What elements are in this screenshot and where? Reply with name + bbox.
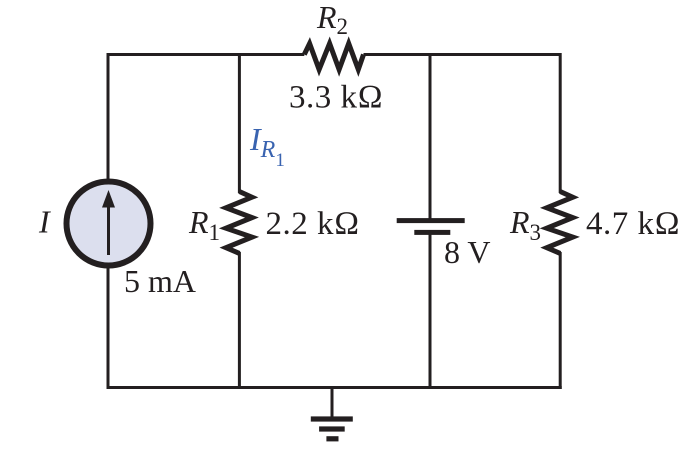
svg-text:5 mA: 5 mA <box>124 263 196 299</box>
svg-text:R2: R2 <box>316 0 348 39</box>
wire right rail lower <box>559 252 562 389</box>
svg-text:I: I <box>38 204 51 240</box>
battery E 8 V <box>397 218 465 235</box>
wire right rail upper <box>559 53 562 193</box>
wire R1 branch lower <box>238 252 241 389</box>
svg-text:2.2 kΩ: 2.2 kΩ <box>266 206 360 242</box>
resistor R2 <box>304 44 363 70</box>
current source I <box>67 182 151 266</box>
wire R1 branch upper <box>238 53 241 193</box>
wire battery branch lower <box>429 234 432 389</box>
wire top rail left segment (node a) <box>108 53 304 56</box>
svg-text:3.3 kΩ: 3.3 kΩ <box>289 80 383 116</box>
svg-text:IR1: IR1 <box>249 121 285 171</box>
svg-text:8 V: 8 V <box>444 234 491 270</box>
wire top rail right segment <box>364 53 562 56</box>
wire battery branch upper <box>429 53 432 219</box>
svg-text:R3: R3 <box>509 204 541 245</box>
ground <box>311 388 353 442</box>
wire bottom rail <box>107 386 562 389</box>
svg-text:R1: R1 <box>188 204 220 245</box>
resistor R1 <box>226 192 252 254</box>
wire left rail lower <box>107 266 110 389</box>
wire left rail upper <box>107 53 110 181</box>
svg-text:4.7 kΩ: 4.7 kΩ <box>586 206 680 242</box>
resistor R3 <box>547 192 573 254</box>
